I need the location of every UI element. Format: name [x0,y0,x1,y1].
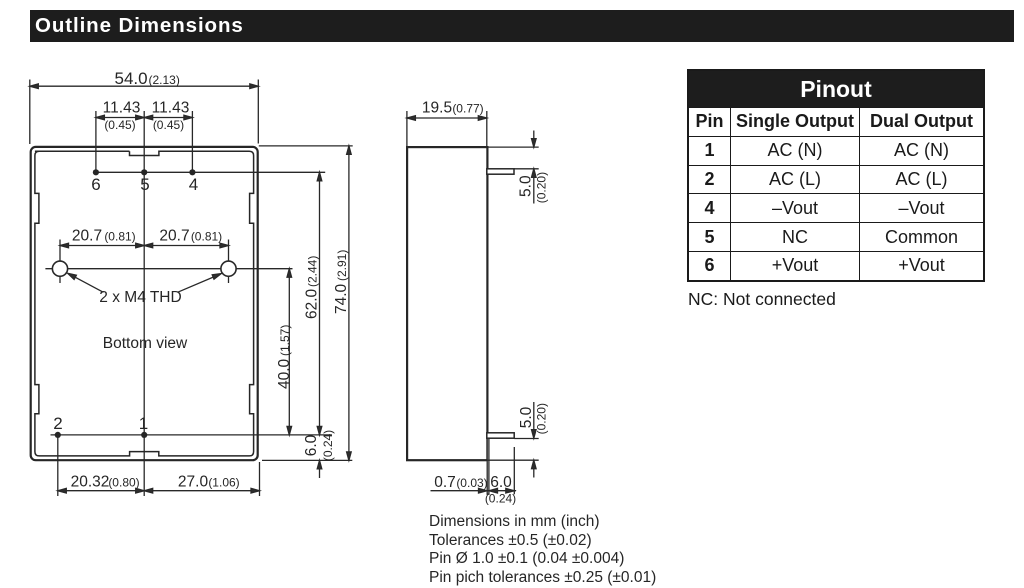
svg-text:(0.24): (0.24) [485,492,516,506]
svg-text:(0.80): (0.80) [108,476,139,490]
svg-text:6.0: 6.0 [303,434,320,456]
svg-text:5.0: 5.0 [518,406,535,428]
svg-text:2 x M4 THD: 2 x M4 THD [99,289,181,306]
svg-text:Bottom view: Bottom view [103,335,188,352]
svg-text:(2.13): (2.13) [149,73,180,87]
svg-text:20.32: 20.32 [71,474,110,491]
svg-text:27.0: 27.0 [178,474,209,491]
svg-text:62.0: 62.0 [304,288,321,319]
svg-text:(0.81): (0.81) [104,230,135,244]
svg-text:(0.77): (0.77) [452,102,483,116]
svg-text:40.0: 40.0 [276,358,293,389]
svg-text:19.5: 19.5 [422,100,452,117]
svg-text:0.7: 0.7 [434,474,456,491]
svg-text:74.0: 74.0 [333,283,350,314]
svg-text:20.7: 20.7 [72,228,102,245]
svg-text:11.43: 11.43 [103,100,141,117]
svg-text:(0.45): (0.45) [153,118,184,132]
svg-text:5: 5 [140,175,149,194]
svg-text:(1.57): (1.57) [278,325,292,356]
svg-text:20.7: 20.7 [159,228,189,245]
svg-text:4: 4 [189,175,198,194]
svg-text:(2.44): (2.44) [306,256,320,287]
svg-text:5.0: 5.0 [518,175,535,197]
svg-text:2: 2 [53,414,62,433]
svg-text:6.0: 6.0 [490,474,512,491]
svg-text:54.0: 54.0 [115,69,148,88]
svg-text:1: 1 [139,414,148,433]
svg-text:6: 6 [91,175,100,194]
svg-text:(0.81): (0.81) [191,230,222,244]
svg-text:(1.06): (1.06) [208,476,239,490]
svg-text:(0.20): (0.20) [535,172,549,203]
svg-text:(0.20): (0.20) [535,403,549,434]
svg-text:11.43: 11.43 [152,100,190,117]
svg-text:(0.03): (0.03) [456,476,487,490]
svg-text:(0.45): (0.45) [104,118,135,132]
svg-text:(0.24): (0.24) [321,430,335,461]
svg-text:(2.91): (2.91) [335,250,349,281]
